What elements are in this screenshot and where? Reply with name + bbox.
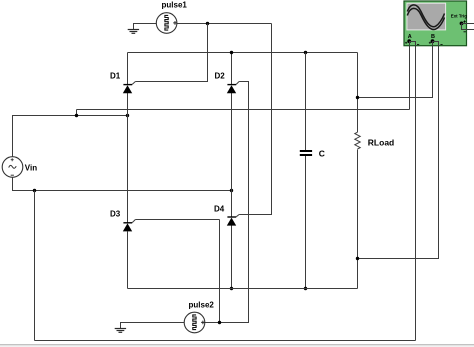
wire: D4 anode down: [231, 225, 233, 289]
ground symbol (pulse1): [128, 30, 139, 34]
svg-text:Vin: Vin: [25, 164, 37, 173]
junction: B- tap on RLoad column: [356, 257, 359, 260]
wire: RLoad bottom vertical: [357, 150, 359, 289]
junction: + rail at C column: [304, 51, 307, 54]
svg-text:Ext Trig: Ext Trig: [451, 14, 467, 19]
junction: jog on Vin+ line: [75, 114, 78, 117]
wire: pulse2 left to ground: [121, 323, 185, 329]
scope channel B terminal: [429, 39, 443, 45]
wire: scope A+ vertical: [409, 45, 411, 110]
wire: pulse1 to D4 gate drop: [239, 24, 271, 215]
junction: pulse1 output at D1 gate drop: [206, 22, 209, 25]
svg-text:B: B: [431, 34, 435, 40]
wire: bottom output rail: [128, 288, 358, 290]
wire: ground reference drop: [34, 191, 36, 341]
wire: scope B- down and left to output-: [358, 45, 439, 259]
oscilloscope XSC1: [404, 1, 467, 46]
wire: D1 anode to D3 cathode column: [127, 93, 129, 223]
svg-text:D2: D2: [215, 72, 226, 81]
junction: pulse2 output at D3 gate drop: [218, 321, 221, 324]
svg-text:D3: D3: [110, 210, 121, 219]
pulse source pulse1: [156, 13, 177, 34]
junction: D4 anode at bottom rail: [230, 287, 233, 290]
wire: pulse1 left to ground: [134, 24, 157, 30]
wire: D2 anode to D4 cathode column: [231, 93, 233, 217]
wire: bottom reference rail: [35, 340, 416, 342]
capacitor C: [300, 151, 312, 155]
wire: Vin+ vertical up: [12, 116, 14, 157]
junction: C bottom at bottom rail: [304, 287, 307, 290]
svg-text:RLoad: RLoad: [368, 138, 394, 148]
wire: Vin+ to scope A+ horizontal: [77, 109, 410, 111]
junction: B+ tap on RLoad column: [356, 96, 359, 99]
svg-text:pulse2: pulse2: [189, 301, 215, 310]
wire: D2 gate to pulse2: [205, 82, 249, 323]
wire: D3 gate line: [135, 219, 219, 221]
wire: D3 gate drop to pulse2: [219, 220, 221, 323]
wire: Vin- down: [13, 177, 232, 190]
junction: Vin- at D2/D4 column: [230, 189, 233, 192]
wire: scope A- vertical: [415, 45, 417, 341]
wire: jog up to scope feed: [76, 110, 78, 116]
svg-text:pulse1: pulse1: [162, 1, 188, 10]
wire: D1 cathode up to + rail: [127, 53, 129, 85]
ext trig terminal: [460, 20, 474, 31]
wire: + rail horizontal: [128, 52, 358, 54]
junction: + rail at D2 column: [230, 51, 233, 54]
wire: C bottom vertical: [305, 156, 307, 289]
svg-text:D1: D1: [110, 72, 121, 81]
svg-text:A: A: [408, 34, 412, 40]
svg-text:D4: D4: [214, 205, 225, 214]
SCR D2: [227, 82, 239, 94]
wire: pulse1 output right: [177, 23, 272, 25]
SCR D4: [227, 215, 239, 226]
wire: D1 gate drop: [135, 24, 207, 82]
wire: D2 cathode up to + rail: [231, 53, 233, 85]
wire: C top vertical: [305, 53, 307, 151]
scope channel A terminal: [405, 39, 419, 45]
wire: D3 anode down: [127, 231, 129, 288]
ground symbol (pulse2): [115, 329, 126, 333]
window border strip: [0, 344, 474, 345]
wire: Vin+ horizontal to D1 anode: [12, 115, 128, 117]
AC source Vin: [2, 157, 23, 178]
pulse source pulse2: [184, 312, 205, 333]
resistor RLoad: [355, 132, 360, 149]
SCR D3: [123, 220, 136, 232]
SCR D1: [123, 82, 136, 94]
junction: Vin+ at D1 anode column: [126, 114, 129, 117]
wire: output+ tap to scope B+: [358, 45, 433, 98]
svg-text:C: C: [319, 149, 325, 159]
junction: Vin- line ground drop: [33, 189, 36, 192]
wire: RLoad top vertical: [357, 53, 359, 133]
